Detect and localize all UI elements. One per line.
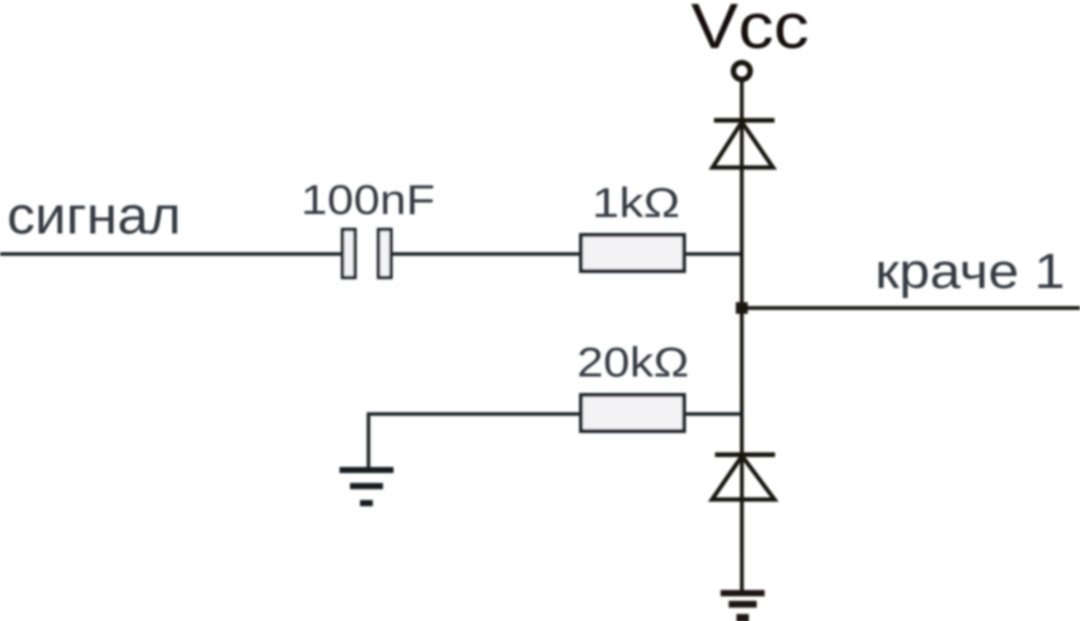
wire: node A to output (краче 1) <box>742 306 1080 310</box>
wire: capacitor to R1 <box>392 252 581 256</box>
Vcc terminal circle <box>733 63 750 80</box>
svg-text:Vcc: Vcc <box>691 0 809 62</box>
wire: R1 to node A <box>684 252 742 256</box>
diode D2 (to ground) <box>712 455 775 500</box>
wire: Vcc terminal down through D1 to node A <box>740 82 744 308</box>
capacitor C1 100nF <box>343 230 392 278</box>
svg-text:100nF: 100nF <box>301 176 435 223</box>
resistor R2 20kΩ <box>581 395 684 431</box>
ground symbol (left) <box>340 467 394 506</box>
wire: ground corner to R2 (left lead) <box>369 414 582 467</box>
resistor R1 1kΩ <box>581 235 684 271</box>
wire: R2 to node A branch <box>684 412 742 416</box>
svg-text:краче 1: краче 1 <box>875 245 1065 299</box>
svg-text:20kΩ: 20kΩ <box>577 339 689 386</box>
wire: node A down through D2 to ground <box>740 308 744 590</box>
ground symbol (bottom) <box>721 590 765 621</box>
diode D1 (to Vcc) <box>713 120 775 167</box>
svg-text:1kΩ: 1kΩ <box>592 179 680 226</box>
wire: signal input to capacitor <box>0 252 342 256</box>
node A junction dot <box>736 302 748 314</box>
svg-text:сигнал: сигнал <box>7 187 181 246</box>
